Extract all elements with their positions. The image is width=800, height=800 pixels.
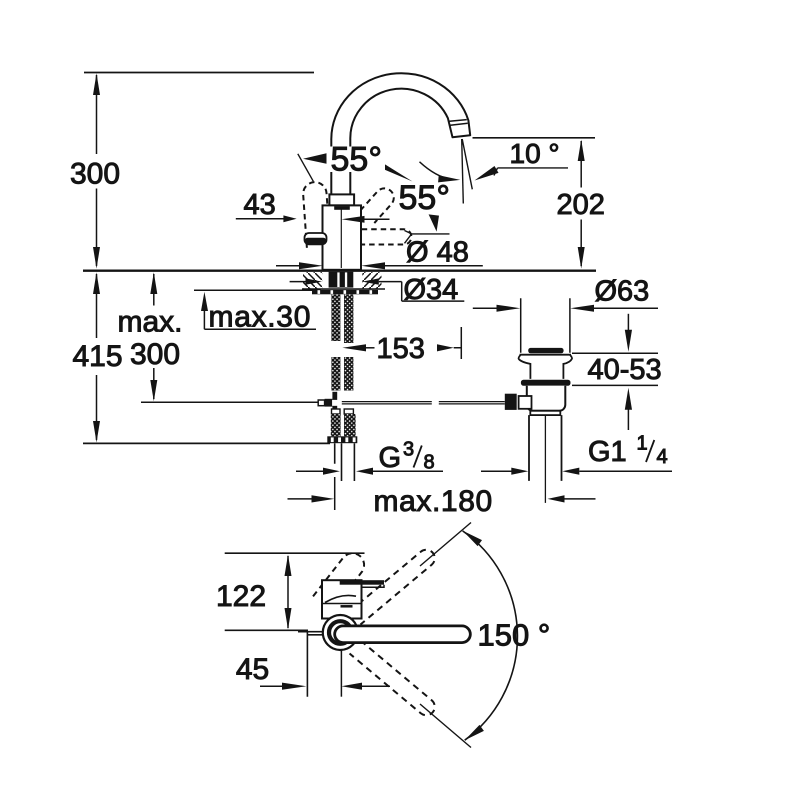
water stream plumb line bbox=[462, 139, 464, 204]
flexible hose braided (upper section) bbox=[331, 295, 340, 342]
spout aerator joint lines bbox=[449, 120, 467, 126]
svg-text:55°: 55° bbox=[331, 141, 382, 179]
top view: handle (solid) bbox=[335, 626, 471, 643]
dimension 45 bbox=[340, 651, 342, 697]
svg-text:1: 1 bbox=[637, 433, 648, 455]
flexible hose braided (below break) bbox=[331, 357, 340, 391]
counter/mounting surface line bbox=[83, 270, 596, 272]
svg-text:max.180: max.180 bbox=[374, 485, 493, 518]
dimension 202 vertical line bbox=[580, 141, 582, 266]
dimension 40-53 bottom arrow bbox=[625, 388, 632, 410]
dimension 300 top arrow bbox=[93, 73, 100, 95]
dimension G3/8 arrows bbox=[296, 470, 325, 472]
svg-text:max.30: max.30 bbox=[209, 301, 312, 334]
waste cap bbox=[520, 354, 572, 356]
dimension 43 right arrow bbox=[342, 216, 365, 223]
handle position dashed (tilted up-left) bbox=[302, 181, 330, 247]
counter underside edge bbox=[302, 288, 385, 290]
dimension max.300 vertical line bbox=[153, 274, 155, 399]
dimension Ø34 arrows bbox=[290, 281, 306, 283]
reference line max.300 bottom bbox=[141, 401, 319, 403]
pop-up waste: extension lines Ø63 bbox=[521, 298, 570, 353]
150° extension line upper bbox=[420, 523, 471, 567]
waste body bbox=[527, 386, 566, 411]
reference line hose end (415 bottom) bbox=[83, 442, 330, 444]
dimension Ø48 arrows at body base bbox=[276, 265, 300, 267]
dimension 300 bottom arrow bbox=[93, 247, 100, 269]
counter underside reference line (max.30) bbox=[194, 289, 321, 291]
label 55° no.1 bbox=[329, 147, 385, 173]
svg-text:153: 153 bbox=[377, 333, 425, 365]
svg-text:G1: G1 bbox=[588, 436, 627, 468]
base flange bbox=[327, 436, 357, 443]
svg-text:300: 300 bbox=[130, 338, 180, 371]
150° arc bbox=[463, 531, 518, 740]
top view: handle dashed down-right bbox=[350, 640, 439, 718]
svg-text:415: 415 bbox=[72, 340, 122, 373]
svg-text:max.: max. bbox=[118, 305, 183, 338]
body collar bbox=[329, 194, 354, 205]
svg-text:202: 202 bbox=[557, 189, 605, 221]
top view: pivot circle bbox=[323, 615, 358, 650]
svg-text:300: 300 bbox=[70, 158, 120, 191]
body centerline bbox=[340, 208, 342, 268]
pop-up rod (horizontal) bbox=[342, 402, 505, 404]
counter cross-section hatch right bbox=[362, 272, 381, 289]
svg-text:40-53: 40-53 bbox=[588, 354, 662, 386]
top view: spout tip reference line bbox=[225, 552, 365, 554]
150° arrowhead top bbox=[463, 531, 482, 546]
dimension 202 top arrow bbox=[578, 140, 585, 161]
dimension max.300 top arrow bbox=[150, 272, 157, 294]
svg-text:8: 8 bbox=[424, 452, 435, 474]
dimension 40-53 top arrow bbox=[627, 314, 629, 331]
dimension max.180 bbox=[288, 498, 314, 500]
55° no.2 arc bbox=[420, 162, 452, 179]
55° no.1 left leader line bbox=[298, 154, 314, 182]
mounting nut band bbox=[312, 290, 378, 295]
dimension 300 vertical line bbox=[96, 75, 98, 266]
rod coupling cylinder bbox=[519, 396, 532, 409]
55° no.1 left arrowhead bbox=[303, 153, 327, 164]
150° extension line lower bbox=[420, 704, 471, 748]
spout outlet reference line bbox=[473, 137, 596, 139]
handle lever (front view) bbox=[305, 233, 327, 244]
top view: spout dashed bbox=[313, 549, 369, 611]
150° arrowhead bottom bbox=[465, 725, 484, 740]
dimension 122 bbox=[287, 556, 289, 628]
pull-rod tee fitting bbox=[332, 392, 337, 401]
10° leader line bbox=[494, 168, 568, 176]
svg-text:Ø63: Ø63 bbox=[595, 275, 650, 307]
svg-text:Ø34: Ø34 bbox=[404, 274, 459, 306]
mounting shank in hole (black) bbox=[329, 272, 354, 288]
handle position dashed (tilted up-right 55°) bbox=[360, 185, 397, 224]
top view: body bbox=[322, 580, 362, 618]
dimension Ø63 bbox=[473, 307, 497, 309]
water stream tilted line (10°) bbox=[462, 139, 472, 189]
waste tailpipe G1 1/4 bbox=[529, 415, 562, 481]
flexible hose braided (lower section) bbox=[331, 414, 341, 436]
top view: escutcheon plate bbox=[298, 632, 322, 697]
svg-text:4: 4 bbox=[657, 446, 668, 468]
top reference line (spout height) bbox=[84, 72, 314, 74]
waste seal flange (black) bbox=[521, 380, 571, 386]
dimension G1 1/4 arrows bbox=[481, 470, 512, 472]
waste lower ring bbox=[530, 411, 560, 415]
svg-text:45: 45 bbox=[236, 653, 269, 686]
svg-text:122: 122 bbox=[216, 580, 266, 613]
svg-text:G: G bbox=[379, 442, 402, 474]
svg-text:3: 3 bbox=[403, 439, 414, 461]
supply pipe ends G3/8 bbox=[335, 443, 355, 481]
handle position dashed (sideways, horizontal) bbox=[362, 229, 412, 244]
max.30 leader: underline and vertical with up arrow bbox=[204, 310, 316, 329]
extension line faucet (max.180) bbox=[334, 477, 336, 510]
waste plug top (black) bbox=[528, 348, 563, 353]
hose couplings below rod bbox=[332, 409, 341, 414]
10° arrowhead bbox=[475, 166, 499, 181]
top view: handle blade (black) bbox=[340, 580, 384, 585]
dimension 415 vertical line bbox=[96, 274, 98, 440]
svg-text:55°: 55° bbox=[399, 179, 450, 217]
cartridge nut detail bbox=[334, 206, 350, 210]
dimension 415 bottom arrow bbox=[93, 421, 100, 443]
55° no.1 right leader line bbox=[369, 156, 378, 163]
spout tube with nozzle bbox=[331, 73, 470, 196]
counter cross-section hatch left bbox=[303, 272, 322, 289]
top view: handle dashed up-right bbox=[350, 546, 439, 624]
svg-text:43: 43 bbox=[244, 189, 276, 221]
svg-text:150 °: 150 ° bbox=[478, 618, 551, 653]
top view: spout root curve bbox=[325, 595, 356, 602]
dimension 202 bottom arrow bbox=[578, 247, 585, 269]
55° no.2 pointer to sideways handle bbox=[429, 214, 439, 231]
leader from sideways handle tip bbox=[405, 231, 450, 244]
waste centerline bbox=[544, 416, 546, 503]
faucet body bbox=[323, 205, 362, 269]
top view: pivot axis reference line bbox=[225, 629, 308, 631]
dimension 43 leader bbox=[236, 218, 284, 220]
dimension max.300 bottom arrow bbox=[150, 380, 157, 401]
rod coupling nut (black) bbox=[505, 394, 517, 410]
55° no.2 arrowhead bbox=[438, 175, 460, 182]
55° no.1 right arrowhead bbox=[369, 154, 413, 182]
svg-text:10 °: 10 ° bbox=[510, 138, 560, 169]
svg-text:Ø 48: Ø 48 bbox=[406, 236, 469, 268]
dimension 153 leader bbox=[342, 344, 366, 351]
dimension 415 top arrow bbox=[93, 272, 100, 294]
